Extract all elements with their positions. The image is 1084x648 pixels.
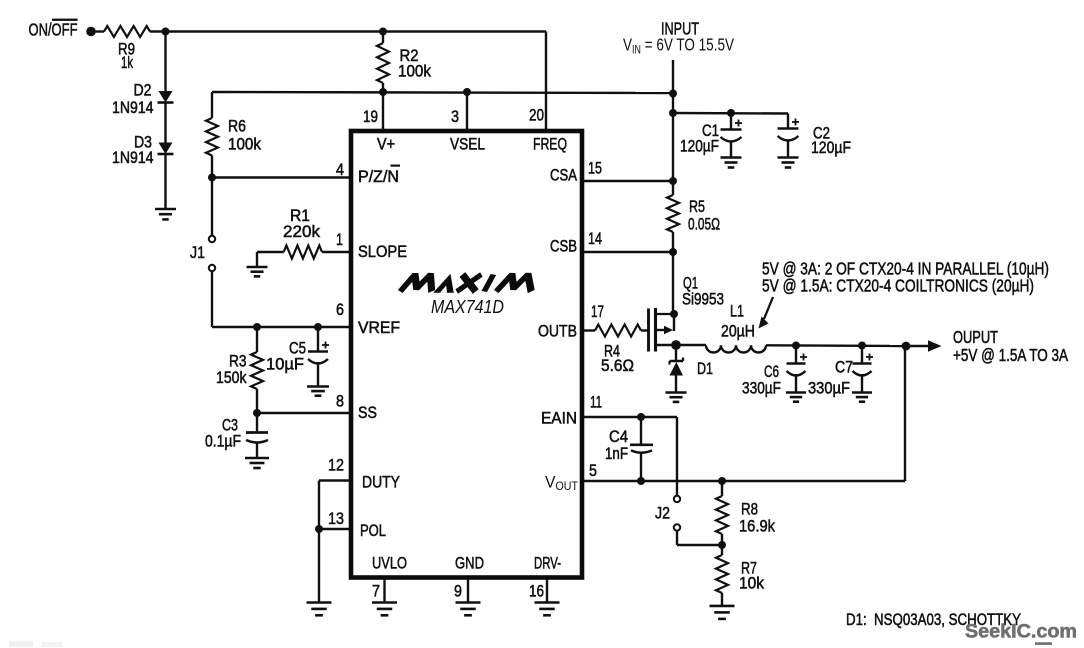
svg-text:EAIN: EAIN bbox=[541, 409, 577, 428]
svg-text:120µF: 120µF bbox=[680, 137, 719, 156]
svg-text:1N914: 1N914 bbox=[112, 148, 154, 167]
svg-text:20: 20 bbox=[529, 106, 544, 125]
svg-text:14: 14 bbox=[588, 229, 602, 248]
svg-text:0.05Ω: 0.05Ω bbox=[688, 215, 720, 234]
svg-text:8: 8 bbox=[336, 392, 344, 411]
svg-text:P/Z/N: P/Z/N bbox=[358, 167, 399, 186]
svg-text:V+: V+ bbox=[377, 135, 395, 154]
svg-text:1k: 1k bbox=[121, 53, 133, 72]
svg-text:ON/OFF: ON/OFF bbox=[29, 20, 78, 40]
svg-text:GND: GND bbox=[455, 554, 484, 573]
svg-text:DUTY: DUTY bbox=[362, 473, 400, 492]
svg-text:12: 12 bbox=[328, 456, 344, 475]
svg-text:10µF: 10µF bbox=[266, 355, 304, 374]
svg-text:5: 5 bbox=[589, 461, 597, 480]
svg-text:L1: L1 bbox=[730, 302, 744, 321]
svg-text:5V @ 1.5A: CTX20-4 COILTRONICS: 5V @ 1.5A: CTX20-4 COILTRONICS (20µH) bbox=[762, 276, 1034, 296]
svg-text:16.9k: 16.9k bbox=[739, 517, 775, 536]
svg-text:6: 6 bbox=[336, 300, 344, 319]
svg-text:+5V @ 1.5A TO 3A: +5V @ 1.5A TO 3A bbox=[953, 345, 1068, 365]
svg-text:POL: POL bbox=[360, 521, 386, 540]
svg-text:150k: 150k bbox=[216, 368, 247, 387]
svg-text:9: 9 bbox=[454, 582, 462, 601]
svg-text:OUTB: OUTB bbox=[538, 322, 577, 341]
svg-text:3: 3 bbox=[451, 107, 459, 126]
svg-text:OUPUT: OUPUT bbox=[953, 327, 998, 347]
svg-text:330µF: 330µF bbox=[742, 379, 781, 398]
svg-text:11: 11 bbox=[590, 393, 602, 412]
svg-text:16: 16 bbox=[529, 582, 544, 601]
svg-text:VSEL: VSEL bbox=[450, 135, 485, 154]
svg-text:100k: 100k bbox=[398, 62, 431, 81]
svg-text:1nF: 1nF bbox=[605, 444, 628, 463]
svg-text:1: 1 bbox=[336, 230, 343, 249]
svg-text:D2: D2 bbox=[134, 81, 152, 100]
svg-text:DRV-: DRV- bbox=[534, 554, 561, 573]
svg-text:120µF: 120µF bbox=[811, 138, 851, 157]
svg-text:VREF: VREF bbox=[358, 318, 400, 337]
svg-text:4: 4 bbox=[336, 160, 344, 179]
svg-text:CSB: CSB bbox=[550, 237, 577, 256]
svg-text:Si9953: Si9953 bbox=[682, 290, 724, 309]
svg-text:17: 17 bbox=[591, 302, 604, 321]
svg-text:220k: 220k bbox=[283, 222, 320, 241]
svg-text:R6: R6 bbox=[228, 117, 246, 136]
svg-text:1N914: 1N914 bbox=[112, 98, 154, 117]
svg-text:J1: J1 bbox=[190, 243, 205, 262]
svg-text:CSA: CSA bbox=[550, 166, 577, 185]
svg-text:SeekIC.com: SeekIC.com bbox=[965, 622, 1077, 643]
svg-text:10k: 10k bbox=[739, 574, 764, 593]
svg-text:15: 15 bbox=[588, 159, 602, 178]
svg-text:0.1µF: 0.1µF bbox=[205, 432, 241, 451]
svg-text:19: 19 bbox=[363, 107, 378, 126]
svg-text:5.6Ω: 5.6Ω bbox=[601, 356, 634, 375]
svg-text:J2: J2 bbox=[655, 504, 670, 523]
svg-text:C7: C7 bbox=[835, 358, 853, 377]
svg-text:SLOPE: SLOPE bbox=[358, 242, 407, 261]
svg-text:D1: D1 bbox=[697, 359, 713, 378]
svg-text:MAX741D: MAX741D bbox=[431, 296, 504, 317]
svg-text:UVLO: UVLO bbox=[372, 554, 407, 573]
svg-text:FREQ: FREQ bbox=[533, 135, 567, 154]
svg-text:13: 13 bbox=[328, 509, 344, 528]
svg-text:20µH: 20µH bbox=[721, 322, 755, 341]
svg-text:7: 7 bbox=[372, 582, 380, 601]
svg-text:R5: R5 bbox=[689, 197, 705, 216]
svg-text:100k: 100k bbox=[228, 135, 261, 154]
svg-text:SS: SS bbox=[358, 403, 377, 422]
svg-text:330µF: 330µF bbox=[808, 379, 850, 398]
